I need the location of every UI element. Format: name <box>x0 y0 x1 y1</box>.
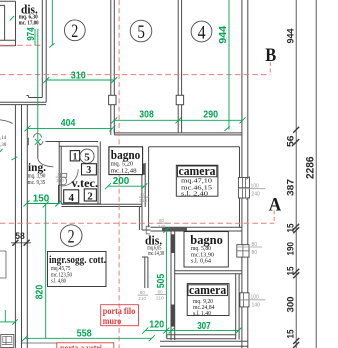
svg-text:307: 307 <box>197 321 211 332</box>
svg-text:80: 80 <box>141 192 147 197</box>
svg-text:s.l. 1,40: s.l. 1,40 <box>193 311 211 317</box>
svg-text:ing.: ing. <box>28 162 46 174</box>
svg-text:mq.45,75: mq.45,75 <box>51 266 71 272</box>
svg-text:190: 190 <box>286 242 297 256</box>
dim 308 <box>111 110 181 124</box>
window bagno2 <box>237 245 249 257</box>
fixture bottom-left appliance <box>1 335 14 348</box>
dim line x316 <box>315 0 317 348</box>
svg-text:210: 210 <box>139 198 147 203</box>
svg-text:2: 2 <box>71 21 78 42</box>
svg-text:15: 15 <box>286 223 297 233</box>
circle 5 top <box>130 20 152 43</box>
door leaf ing <box>37 144 39 159</box>
svg-text:240: 240 <box>252 192 261 198</box>
wall camera1 left <box>148 147 150 228</box>
label ing <box>28 162 46 186</box>
dim 974 text and extension <box>26 27 38 141</box>
svg-text:mc.13,90: mc.13,90 <box>191 252 214 258</box>
section line vertical x119 <box>118 0 120 348</box>
wall stub left of porta a vetri <box>22 342 58 344</box>
wall bottom exterior double <box>160 341 248 346</box>
fraction 80/210 dis2-ingr door <box>138 290 149 301</box>
svg-text:2: 2 <box>87 190 93 202</box>
svg-text:mq. 5,80: mq. 5,80 <box>191 246 211 252</box>
dim 307 <box>169 321 242 334</box>
green cross mark at ing door <box>35 139 41 145</box>
svg-text:mc. 17,00: mc. 17,00 <box>19 20 39 26</box>
svg-text:mc.24,84: mc.24,84 <box>193 305 215 311</box>
label dis1 top-left <box>19 3 39 27</box>
extension line with arrow top <box>49 0 54 48</box>
svg-text:bagno: bagno <box>111 148 141 162</box>
wall corridor mid pair 1 <box>111 0 115 135</box>
window camera1 <box>238 178 249 199</box>
label box bagno2 <box>184 232 228 267</box>
v.tec box 3 <box>82 164 97 177</box>
section riser to A <box>273 211 275 224</box>
label box bagno1 <box>109 147 143 175</box>
wall camera1 right inner <box>239 147 241 228</box>
svg-text:15: 15 <box>286 329 297 339</box>
svg-text:v.tec.: v.tec. <box>72 178 99 190</box>
hinge flower marks <box>34 134 44 146</box>
wall vertical flush-door wall x171 <box>171 231 175 340</box>
wall bagno2-camera2 divider double <box>175 271 242 274</box>
dim 820 vertical <box>34 201 48 338</box>
pillar box on wall 1 <box>109 95 116 104</box>
dim line x296 <box>295 0 297 348</box>
red note porta filo muro <box>101 305 139 326</box>
wall right exterior inner line with window gaps <box>241 0 243 348</box>
v.tec circle 5 <box>80 149 94 163</box>
svg-text:505: 505 <box>156 273 167 288</box>
svg-text:290: 290 <box>203 110 218 121</box>
svg-text:240: 240 <box>158 224 166 229</box>
svg-text:B: B <box>265 46 276 66</box>
window camera2 <box>240 293 249 307</box>
svg-text:porta filo: porta filo <box>103 306 136 316</box>
svg-text:camera: camera <box>189 283 227 297</box>
svg-text:200: 200 <box>113 176 130 187</box>
wall notch at corridor left base <box>27 96 43 98</box>
svg-text:A: A <box>269 196 282 216</box>
wall camera2 bottom double <box>167 335 236 339</box>
svg-text:820: 820 <box>34 284 45 299</box>
green line bottom-left <box>0 310 18 325</box>
svg-text:210: 210 <box>138 296 146 301</box>
circle 4 top <box>191 21 212 43</box>
dim 558 <box>22 329 155 342</box>
dim 505 vertical <box>156 227 170 338</box>
pillar box on wall 2 <box>176 95 183 104</box>
svg-text:mc.14,30: mc.14,30 <box>148 251 164 257</box>
wall ing top <box>46 141 99 143</box>
svg-text:s.l. 0,64: s.l. 0,64 <box>191 259 211 265</box>
fraction 100/140 window camera2 <box>240 295 266 309</box>
svg-text:100: 100 <box>251 295 260 301</box>
svg-text:3: 3 <box>86 165 91 176</box>
section stub y45.3 <box>0 44 41 46</box>
svg-text:944: 944 <box>286 28 297 44</box>
section line horizontal y74.6 <box>0 74 270 76</box>
wall neighbour lower-left box <box>0 251 6 278</box>
dim 58 left <box>11 231 31 246</box>
wall corridor bottom double <box>114 128 242 135</box>
svg-text:4: 4 <box>198 22 206 43</box>
svg-text:404: 404 <box>61 118 76 129</box>
wall camera2 right pair <box>236 274 239 340</box>
label box camera1 <box>176 164 218 197</box>
door arc v.tec <box>62 169 79 186</box>
svg-text:210: 210 <box>56 178 64 183</box>
svg-text:80: 80 <box>252 242 258 248</box>
svg-text:5: 5 <box>137 22 145 43</box>
svg-text:s.l. 4,80: s.l. 4,80 <box>51 279 66 285</box>
svg-text:80: 80 <box>140 290 146 295</box>
svg-text:944: 944 <box>218 25 229 44</box>
svg-text:s.l. 2,40: s.l. 2,40 <box>181 190 208 197</box>
svg-text:,30: ,30 <box>0 143 7 148</box>
svg-text:mq. 5,20: mq. 5,20 <box>111 162 134 168</box>
wall neighbour room top-left <box>0 1 16 46</box>
fraction 100/240 window camera1 <box>238 176 265 199</box>
svg-text:2: 2 <box>68 226 75 247</box>
svg-text:80: 80 <box>252 250 258 256</box>
door leaf dark camera2 <box>171 305 175 327</box>
dim 120 <box>142 320 171 334</box>
svg-text:558: 558 <box>77 329 92 340</box>
fraction 80/210 camera2 flush door <box>155 290 166 301</box>
svg-text:974: 974 <box>26 27 37 41</box>
wall camera1 top <box>149 146 240 148</box>
svg-text:bagno: bagno <box>190 233 223 247</box>
wall left inner face <box>26 105 28 348</box>
svg-text:120: 120 <box>149 320 164 331</box>
dim 290 <box>179 110 246 124</box>
wall right exterior outer line <box>247 0 249 348</box>
svg-text:15: 15 <box>286 266 297 276</box>
wall below v.tec double <box>62 204 142 206</box>
svg-text:310: 310 <box>71 70 86 81</box>
svg-text:ingr.sogg. cott.: ingr.sogg. cott. <box>49 254 106 266</box>
v.tec box 2 <box>84 189 96 202</box>
dim 150 <box>24 194 62 207</box>
wall corridor left pair <box>42 0 46 102</box>
label box ingr.sogg <box>48 252 107 287</box>
fraction 80/210 ing door <box>56 172 66 183</box>
wall dis2 left upper pair <box>139 207 150 231</box>
svg-text:80: 80 <box>58 172 64 177</box>
wall bagno1 right pair with filled jamb <box>142 163 145 207</box>
svg-text:100: 100 <box>251 184 260 190</box>
svg-text:1: 1 <box>73 152 78 162</box>
svg-text:300: 300 <box>286 297 297 313</box>
red note porta a vetri bottom <box>57 343 114 348</box>
ticks on x296 <box>293 127 299 348</box>
wall corridor mid pair 2 <box>178 0 181 133</box>
svg-text:210: 210 <box>156 295 164 300</box>
svg-text:mc.123,50: mc.123,50 <box>51 272 72 278</box>
svg-text:58: 58 <box>15 231 25 242</box>
door leaf dark dis2 <box>171 234 175 253</box>
svg-text:387: 387 <box>286 179 297 196</box>
circle 2 lower <box>60 225 82 248</box>
label box camera2 <box>187 283 229 317</box>
v.tec box 4 <box>64 190 79 204</box>
wall dis2-bagno2 top double with dark fill <box>151 227 242 231</box>
wall apartment top-left double <box>0 102 46 104</box>
svg-text:4: 4 <box>69 192 75 204</box>
svg-text:porta a vetri: porta a vetri <box>60 343 102 348</box>
wall left exterior lines <box>15 105 21 348</box>
svg-text:5: 5 <box>84 151 90 163</box>
svg-text:80: 80 <box>158 290 164 295</box>
green tick left edge <box>0 149 3 152</box>
section line horizontal y223.3 <box>0 222 274 224</box>
svg-text:56: 56 <box>286 136 297 148</box>
jamb marks near dis2 door <box>146 226 150 234</box>
svg-text:mq. 3,90: mq. 3,90 <box>28 174 46 180</box>
wall dis2 left lower pair <box>142 257 148 288</box>
dim 200 <box>105 176 147 189</box>
v.tec numbered box 1 <box>70 151 79 163</box>
svg-text:80: 80 <box>159 218 165 223</box>
svg-text:camera: camera <box>179 164 217 178</box>
jamb notch on left wall <box>27 138 28 145</box>
svg-text:mc. 9,35: mc. 9,35 <box>28 180 46 186</box>
svg-text:muro: muro <box>103 316 122 326</box>
wall v.tec left thickening <box>59 185 62 204</box>
label dis2 <box>145 233 164 257</box>
circle 2 top <box>64 20 85 42</box>
svg-text:,14: ,14 <box>0 136 7 141</box>
door arc ing <box>38 159 54 167</box>
svg-text:140: 140 <box>252 303 261 309</box>
fraction 80/240 dis2 door <box>157 218 167 229</box>
fixture wc in v.tec <box>60 173 66 185</box>
svg-text:mc.12,48: mc.12,48 <box>111 169 137 175</box>
wall v.tec outline <box>59 142 100 204</box>
leader arrow left mid <box>12 157 18 160</box>
dim 944 green extension <box>218 0 230 131</box>
door arc neighbour top-left <box>0 120 13 124</box>
dim 310 <box>43 70 117 83</box>
leader arrow top-left <box>10 16 14 20</box>
svg-text:2286: 2286 <box>305 157 317 180</box>
dim 404 <box>25 118 116 132</box>
section riser to B <box>269 62 271 75</box>
fraction 80/80 window bagno2 <box>237 242 262 256</box>
fraction 80/210 bagno1 door <box>139 192 149 203</box>
svg-text:308: 308 <box>139 110 154 121</box>
